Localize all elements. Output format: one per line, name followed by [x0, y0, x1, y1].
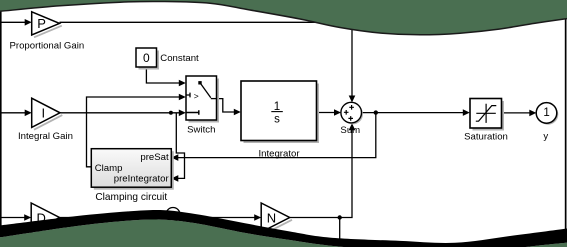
wire stub down from N output junction: [339, 218, 341, 241]
svg-text:Switch: Switch: [187, 125, 215, 136]
svg-text:Clamping circuit: Clamping circuit: [95, 192, 167, 203]
svg-text:Integrator: Integrator: [258, 148, 300, 159]
constant block: [139, 51, 160, 70]
top green wave mask: [0, 0, 567, 35]
integrator block: [244, 84, 320, 144]
wire input to P gain: [0, 21, 26, 23]
sum plus bottom: [348, 116, 353, 121]
saturation icon: [476, 104, 497, 123]
switch port3 stub: [186, 110, 199, 115]
partially hidden circle block near bottom band: [166, 208, 180, 222]
switch block: [189, 79, 220, 123]
sum plus left: [344, 110, 349, 115]
wire Integrator output to Sum left: [317, 112, 336, 114]
sum plus top: [349, 105, 354, 110]
svg-text:y: y: [543, 131, 548, 142]
gain D: [34, 220, 62, 235]
saturation block: [473, 101, 505, 131]
svg-text:Saturation: Saturation: [464, 131, 508, 142]
svg-text:1: 1: [543, 107, 549, 119]
bottom black wave band: [0, 210, 567, 247]
wire feedback Sum output to preSat: [178, 113, 376, 158]
wire Constant to Switch port 1: [146, 67, 179, 83]
svg-text:I: I: [42, 106, 46, 121]
svg-text:Integral Gain: Integral Gain: [18, 131, 73, 142]
svg-text:preSat: preSat: [140, 152, 169, 163]
svg-text:P: P: [37, 16, 46, 31]
svg-text:s: s: [274, 114, 280, 126]
wire Clamp output to Switch port 2: [87, 97, 180, 167]
wire Saturation output to out port y: [502, 112, 531, 114]
gain P: [34, 26, 62, 38]
switch pivot square port1: [198, 81, 201, 84]
gain N: [264, 220, 293, 235]
top wave edge line: [0, 1, 567, 34]
switch output stub: [211, 98, 217, 100]
wire N gain output to Sum bottom: [290, 130, 352, 218]
output port y: [538, 104, 559, 125]
sum block: [342, 104, 363, 125]
junction dot on N output: [338, 215, 342, 219]
wire input to I gain: [0, 112, 26, 114]
junction dot on I gain output: [169, 111, 173, 115]
canvas right border: [565, 16, 567, 232]
wire input to D gain: [0, 217, 25, 219]
switch diagonal lever: [200, 83, 211, 98]
svg-text:0: 0: [143, 51, 150, 65]
wire Sum output to Saturation: [362, 112, 464, 114]
wire Switch output to Integrator: [217, 99, 235, 112]
bottom green area: [0, 219, 567, 247]
canvas left border: [0, 8, 2, 228]
wire P gain output to Sum top: [60, 22, 353, 96]
wire I gain output to Switch port 3: [60, 112, 180, 114]
svg-text:Sum: Sum: [340, 125, 360, 136]
wire branch I output to preIntegrator: [176, 113, 184, 179]
wire D gain output to N gain: [60, 217, 256, 219]
gain I: [34, 115, 62, 130]
svg-text:>: >: [194, 91, 199, 101]
svg-text:Clamp: Clamp: [95, 163, 123, 174]
svg-text:preIntegrator: preIntegrator: [114, 173, 170, 184]
switch control port mark: [186, 93, 190, 98]
svg-text:1: 1: [274, 101, 280, 113]
svg-text:N: N: [267, 211, 276, 226]
svg-text:Constant: Constant: [160, 53, 199, 64]
junction dot on Sum output: [374, 110, 378, 114]
svg-text:Proportional Gain: Proportional Gain: [10, 41, 85, 52]
